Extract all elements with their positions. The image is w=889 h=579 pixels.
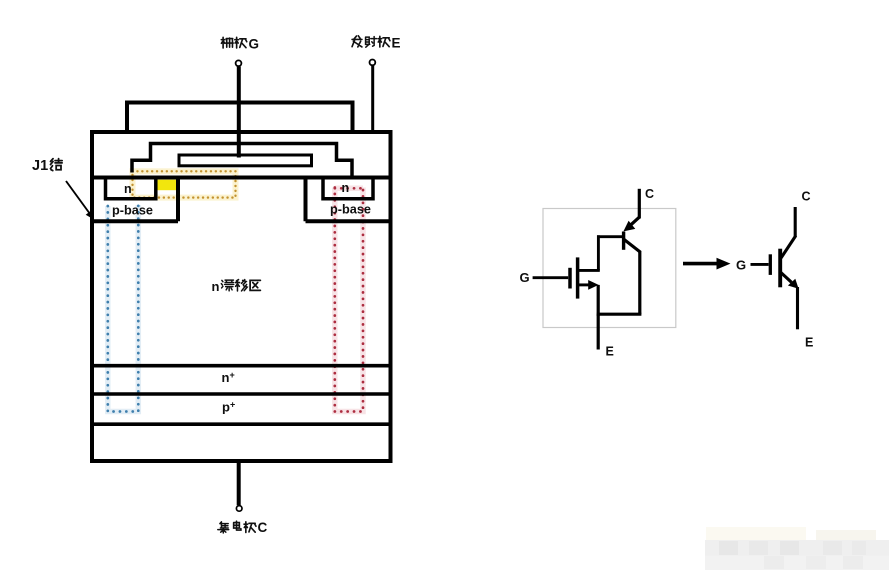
label J1结 [32, 158, 62, 174]
svg-text:n: n [212, 279, 220, 294]
right n+ well box [323, 178, 373, 199]
watermark blocks bottom right [705, 527, 889, 570]
mosfet M1 gate bar [568, 268, 572, 289]
gate electrode plate [179, 155, 312, 166]
svg-text:C: C [645, 187, 654, 201]
gray bounding box [543, 209, 676, 328]
gate oxide outline (stepped) [132, 144, 352, 178]
pnp Q1 base bar [622, 232, 625, 250]
igbt emitter diagonal with arrow [781, 273, 792, 283]
svg-text:p-base: p-base [330, 203, 371, 217]
wire G lead [533, 276, 569, 279]
right p-base boundary [306, 178, 391, 222]
label 栅极G [221, 36, 259, 51]
svg-text:E: E [606, 345, 614, 359]
surface line (top of silicon) [92, 176, 391, 180]
body outline (semiconductor die) [92, 132, 391, 461]
wire emitter lead [371, 66, 374, 131]
svg-text:E: E [805, 336, 813, 350]
wire gate lead [237, 67, 241, 158]
wire emitter down [796, 287, 799, 329]
igbt collector diagonal [781, 236, 796, 258]
wire collector up [794, 207, 797, 237]
terminal C circle [236, 506, 242, 512]
svg-text:p-base: p-base [112, 204, 153, 218]
svg-text:n: n [124, 182, 132, 196]
wire source lead with arrow [578, 283, 591, 286]
wire base to drain [597, 235, 600, 270]
orange dotted depletion rectangle [133, 171, 236, 197]
terminal E circle [370, 60, 376, 66]
wire drain lead [578, 269, 600, 272]
left n+ well box [106, 178, 156, 199]
svg-text:C: C [258, 520, 268, 535]
wire bottom connect [597, 313, 642, 316]
wire G lead [751, 263, 769, 266]
top cap (emitter metal contact raised region) [127, 103, 353, 133]
label 发射极E [352, 35, 400, 50]
svg-text:G: G [520, 270, 530, 285]
layer line p+ bottom [92, 422, 391, 426]
svg-text:C: C [802, 190, 811, 204]
svg-text:E: E [392, 35, 401, 50]
wire base lead [597, 235, 623, 238]
label 集电极C [218, 520, 268, 535]
svg-text:G: G [736, 257, 746, 272]
svg-text:n: n [342, 181, 350, 195]
svg-text:J1: J1 [32, 158, 48, 174]
wire collector lead [237, 461, 241, 505]
yellow channel highlight [155, 180, 178, 191]
leader arrow J1 [66, 181, 94, 220]
red dotted current path [335, 188, 363, 412]
mosfet M1 channel bar [576, 257, 580, 298]
layer line n-drift / n+ buffer [92, 364, 391, 368]
wire E lead [597, 314, 600, 349]
implication arrow [683, 258, 731, 270]
pnp emitter diagonal with arrow [629, 217, 639, 226]
blue dotted current path [108, 205, 139, 412]
pnp collector diagonal [624, 239, 641, 252]
svg-text:G: G [249, 36, 260, 51]
left p-base boundary [92, 178, 178, 222]
label n-drift region [212, 279, 261, 294]
wire source down [597, 285, 600, 316]
wire collector down [638, 251, 641, 314]
layer line n+ / p+ [92, 392, 391, 396]
terminal G circle [236, 60, 242, 66]
wire C lead [638, 189, 641, 219]
igbt gate bar [769, 254, 772, 275]
igbt channel bar [778, 249, 782, 288]
